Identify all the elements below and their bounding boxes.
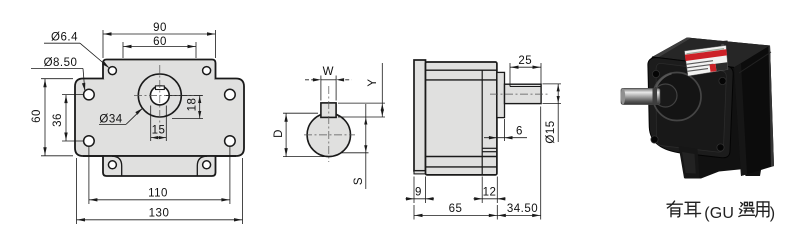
photo: motor body silhouette (648, 38, 774, 179)
svg-text:(GU: (GU (704, 205, 734, 222)
svg-text:60: 60 (31, 109, 43, 123)
dim S line (365, 104, 367, 189)
vertical centerline (159, 65, 161, 124)
svg-text:18: 18 (187, 98, 199, 112)
svg-text:Ø15: Ø15 (545, 120, 557, 143)
svg-text:60: 60 (153, 36, 167, 48)
photo: bolt hole BL (651, 136, 658, 143)
left ear separation line (112, 156, 122, 176)
photo: flange inner panel (656, 63, 726, 152)
caption kanji er (ear) (685, 202, 701, 217)
dim 65 line (414, 214, 497, 216)
case line bottom1 (426, 156, 497, 158)
svg-text:Ø34: Ø34 (99, 113, 122, 125)
bottom mounting tab with ears (103, 156, 216, 177)
dim 34.50 extension line (540, 107, 542, 220)
svg-text:6: 6 (516, 125, 523, 137)
photo: boss rim arc (656, 74, 672, 88)
shaft centerline (490, 93, 549, 95)
svg-text:9: 9 (415, 186, 422, 198)
svg-text:36: 36 (52, 113, 64, 127)
shaft bore O15 (150, 86, 169, 105)
svg-text:Ø8.50: Ø8.50 (44, 57, 78, 69)
dim 9 extension lines (413, 177, 415, 204)
dim 60 extension lines (122, 42, 124, 58)
section horizontal centerline (304, 134, 355, 136)
photo: rear tab (717, 41, 729, 53)
photo: bolt hole TR (719, 77, 726, 84)
top mounting tab (103, 60, 216, 80)
dim 65 extension lines (413, 205, 415, 220)
svg-text:65: 65 (449, 203, 463, 215)
caption kanji yong (use) (756, 202, 769, 217)
body hole O8.50 bottom-left (84, 136, 95, 147)
case line bottom2 (426, 166, 497, 168)
svg-text:130: 130 (149, 208, 170, 220)
svg-text:D: D (273, 129, 285, 138)
photo: right face groove (739, 52, 771, 73)
shaft section circle D (307, 113, 350, 156)
photo: label bottom dark block (716, 62, 728, 71)
photo: shaft end cap (621, 88, 625, 104)
shaft keyway line (510, 86, 541, 88)
dim 25 line (510, 66, 541, 68)
photo: top face front highlight (652, 38, 691, 59)
gearhead step line2 (482, 151, 497, 153)
svg-text:34.50: 34.50 (507, 203, 538, 215)
dim Y line (381, 63, 383, 117)
dim 60 left extension lines (41, 78, 73, 80)
photo: label top microtext (687, 49, 725, 54)
photo: right face front band (734, 63, 747, 176)
dim O15 extension lines (543, 83, 562, 85)
caption kanji you (has) (667, 201, 682, 217)
mounting hole O6.4 bottom-right (203, 161, 211, 169)
svg-text:Y: Y (367, 78, 379, 86)
photo: label sticker (685, 46, 729, 77)
dim 12 line (474, 198, 506, 200)
dim 12 extension lines (481, 177, 483, 204)
body hole O8.50 top-right (225, 89, 236, 100)
ear plate side (414, 171, 426, 174)
dim D extension lines (283, 112, 318, 114)
photo: boss circle (653, 73, 701, 121)
body bottom edge over tab (83, 155, 236, 157)
section vertical centerline (328, 86, 330, 162)
svg-text:12: 12 (483, 186, 497, 198)
photo: label text lines (686, 61, 713, 72)
photo: shaft ring (653, 88, 658, 105)
photo: top face (652, 38, 770, 68)
leader O6.4 (44, 42, 80, 44)
case line top2 (426, 79, 497, 81)
dim 34.50 line (497, 214, 540, 216)
dim 36 line (65, 95, 67, 141)
body hole O8.50 bottom-right (225, 136, 236, 147)
mounting hole O6.4 top-right (203, 67, 211, 75)
photo: label red stripe (685, 49, 727, 61)
svg-text:110: 110 (148, 188, 168, 200)
dim S extension line (341, 152, 369, 154)
photo: rear tab hole (721, 44, 725, 48)
dim 90 line (103, 33, 216, 35)
dim 60 left line (44, 79, 46, 156)
dim 130 line (77, 219, 243, 221)
dim 6 extension line (504, 119, 506, 141)
photo: front flange face (648, 58, 733, 158)
cover top tab joint (104, 77, 214, 80)
keyway slot (156, 86, 165, 90)
dim 110 extension lines (88, 147, 90, 204)
right ear separation line (197, 156, 207, 176)
dim W line (321, 79, 336, 81)
gearhead step line1 (482, 147, 497, 149)
dim 18 line (199, 96, 201, 119)
photo: ear foot face (682, 152, 696, 174)
dim D line (285, 113, 287, 156)
dim 36 extension lines (62, 94, 83, 96)
svg-text:15: 15 (152, 125, 166, 137)
dim O15 line (557, 84, 559, 142)
flange plate side (414, 60, 426, 171)
case line top1 (426, 69, 497, 71)
body hole O8.50 top-left (84, 89, 95, 100)
photo: top face front edge (652, 57, 734, 68)
mounting hole O6.4 bottom-left (108, 161, 116, 169)
photo: hub ring (654, 84, 677, 107)
svg-text:S: S (353, 177, 365, 185)
photo: bolt hole BR (717, 144, 724, 151)
svg-text:Ø6.4: Ø6.4 (51, 32, 78, 44)
svg-text:W: W (323, 66, 334, 78)
dim 90 extension lines (102, 30, 104, 58)
svg-text:90: 90 (153, 22, 167, 34)
leader O34 (99, 123, 126, 125)
photo: label bottom red block (710, 64, 717, 72)
mounting hole O6.4 top-left (108, 67, 116, 75)
boss circle O34 (138, 74, 181, 117)
leader O8.50 (31, 68, 83, 70)
dim 6 line (484, 137, 527, 139)
gear case side (426, 62, 497, 175)
gearhead seam (481, 70, 483, 175)
svg-text:): ) (770, 205, 775, 222)
photo: right face shading (734, 46, 774, 177)
dim W extension lines (320, 76, 322, 101)
key W (321, 103, 336, 118)
svg-text:25: 25 (518, 55, 532, 67)
dim 15 extension lines (150, 106, 152, 142)
output shaft (505, 84, 542, 103)
dim 130 extension lines (76, 158, 78, 224)
dim 60 line (123, 46, 196, 48)
caption kanji xuan (select) (739, 202, 755, 216)
photo: front-left ear foot (679, 146, 700, 178)
flange body outline (130x60 plate) (75, 79, 244, 157)
keyway step (509, 84, 511, 86)
photo: right face edge highlight (769, 46, 775, 167)
bearing hub (497, 72, 505, 117)
photo: bolt hole TL (652, 70, 659, 77)
horizontal centerline (134, 95, 204, 97)
dim 25 extension lines (509, 63, 511, 84)
dim 9 line (406, 198, 435, 200)
dim 18 extension lines (166, 95, 203, 97)
dim Y extension lines (338, 102, 385, 104)
dim 110 line (89, 199, 230, 201)
dim 15 line (151, 137, 167, 139)
